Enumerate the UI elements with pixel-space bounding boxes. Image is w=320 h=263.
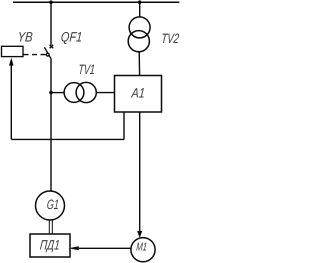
wire bus to QF1 xyxy=(50,2,52,45)
drive PD1 xyxy=(30,234,70,257)
wire bus top xyxy=(13,1,179,3)
actuator YB xyxy=(2,46,24,56)
wire junction to TV1 xyxy=(51,92,64,94)
svg-text:G1: G1 xyxy=(46,197,59,212)
arrow into M1 xyxy=(137,231,142,238)
svg-text:ПД1: ПД1 xyxy=(39,238,60,253)
circuit breaker QF1 xyxy=(44,45,53,59)
transformer TV1 xyxy=(64,82,96,102)
node junction bus-TV2 xyxy=(138,0,142,4)
wire TV2 to A1 xyxy=(138,52,140,76)
svg-text:A1: A1 xyxy=(130,85,145,100)
svg-text:YB: YB xyxy=(17,29,33,44)
generator G1 xyxy=(36,191,65,220)
svg-text:QF1: QF1 xyxy=(60,30,83,45)
wire TV1 to A1 xyxy=(96,92,114,94)
wire A1 to M1 xyxy=(139,112,141,231)
transformer TV2 xyxy=(128,17,150,52)
arrow into PD1 xyxy=(69,246,79,250)
wire feedback A1 to YB (vertical up segment with arrow) xyxy=(10,64,12,139)
svg-text:TV2: TV2 xyxy=(161,31,180,46)
arrow into YB xyxy=(9,58,14,66)
controller A1 xyxy=(115,76,162,113)
motor M1 xyxy=(131,238,155,262)
svg-text:M1: M1 xyxy=(136,242,148,254)
shaft G1 to PD1 (double line) xyxy=(48,220,50,234)
node junction QF1 wire - TV1 branch xyxy=(49,91,53,95)
wire feedback horizontal xyxy=(11,138,124,140)
wire dashed linkage YB-QF1 xyxy=(24,54,47,56)
wire feedback from A1 bottom xyxy=(123,112,125,139)
svg-text:TV1: TV1 xyxy=(78,62,96,77)
node junction bus-QF1 xyxy=(49,0,53,4)
wire bus to TV2 xyxy=(139,2,141,17)
wire M1 to PD1 xyxy=(79,247,131,249)
wire QF1 to G1 xyxy=(50,58,52,191)
